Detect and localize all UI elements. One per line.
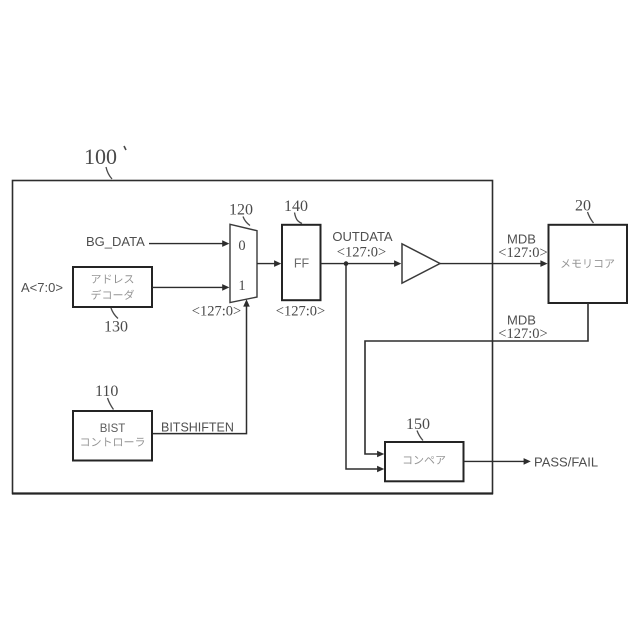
- block 100 outer boundary box: [12, 181, 493, 494]
- svg-text:150: 150: [406, 416, 430, 433]
- label 130: [104, 308, 128, 336]
- buffer amplifier: [402, 244, 440, 283]
- label OUTDATA <127:0>: [332, 229, 393, 261]
- address decoder block 130: [73, 267, 152, 307]
- comparator block 150: [385, 442, 464, 481]
- label MDB <127:0> upper: [498, 232, 547, 262]
- label <127:0> below FF: [276, 304, 325, 320]
- svg-text:140: 140: [284, 198, 308, 215]
- label PASS/FAIL: [534, 455, 598, 470]
- svg-text:<127:0>: <127:0>: [498, 326, 547, 342]
- svg-text:A<7:0>: A<7:0>: [21, 280, 63, 295]
- svg-text:110: 110: [95, 383, 118, 400]
- wire BG_DATA to mux input 0: [149, 240, 229, 247]
- svg-text:<127:0>: <127:0>: [276, 304, 325, 320]
- label A<7:0>: [21, 280, 63, 295]
- svg-text:20: 20: [575, 198, 591, 215]
- svg-text:PASS/FAIL: PASS/FAIL: [534, 455, 598, 470]
- wire memory core MDB feedback to comparator: [365, 303, 588, 457]
- svg-text:BITSHIFTEN: BITSHIFTEN: [161, 421, 234, 435]
- svg-text:100: 100: [84, 144, 117, 169]
- wire buffer output to memory core: [440, 260, 548, 267]
- flip-flop FF block 140: [282, 225, 321, 300]
- node junction on OUTDATA: [344, 261, 349, 266]
- label 100: [84, 144, 126, 179]
- label 150: [406, 416, 430, 441]
- label 20: [575, 198, 594, 224]
- label 140: [284, 198, 308, 224]
- svg-text:<127:0>: <127:0>: [337, 245, 386, 261]
- memory core block 20: [549, 225, 628, 303]
- wire mux output to FF: [257, 260, 281, 267]
- label 120: [229, 202, 253, 226]
- svg-text:130: 130: [104, 319, 128, 336]
- label BITSHIFTEN: [161, 421, 234, 435]
- svg-text:120: 120: [229, 202, 253, 219]
- svg-text:<127:0>: <127:0>: [498, 245, 547, 261]
- wire address decoder to mux input 1: [152, 284, 229, 291]
- mux 120: [230, 224, 257, 302]
- svg-text:1: 1: [238, 278, 245, 294]
- label <127:0> below mux: [192, 304, 241, 320]
- svg-text:FF: FF: [294, 257, 310, 271]
- svg-text:OUTDATA: OUTDATA: [332, 229, 393, 244]
- wire FF output to buffer: [321, 260, 402, 267]
- svg-text:BIST: BIST: [100, 423, 126, 435]
- wire comparator output PASS/FAIL: [464, 458, 531, 465]
- BIST controller block 110: [73, 411, 152, 461]
- label 110: [95, 383, 118, 410]
- wire OUTDATA junction down to comparator: [346, 264, 384, 473]
- svg-text:<127:0>: <127:0>: [192, 304, 241, 320]
- wire BITSHIFTEN from BIST controller up into mux: [152, 299, 250, 433]
- label MDB <127:0> lower: [498, 313, 547, 343]
- svg-text:0: 0: [238, 238, 245, 254]
- svg-text:BG_DATA: BG_DATA: [86, 234, 145, 249]
- label BG_DATA: [86, 234, 145, 249]
